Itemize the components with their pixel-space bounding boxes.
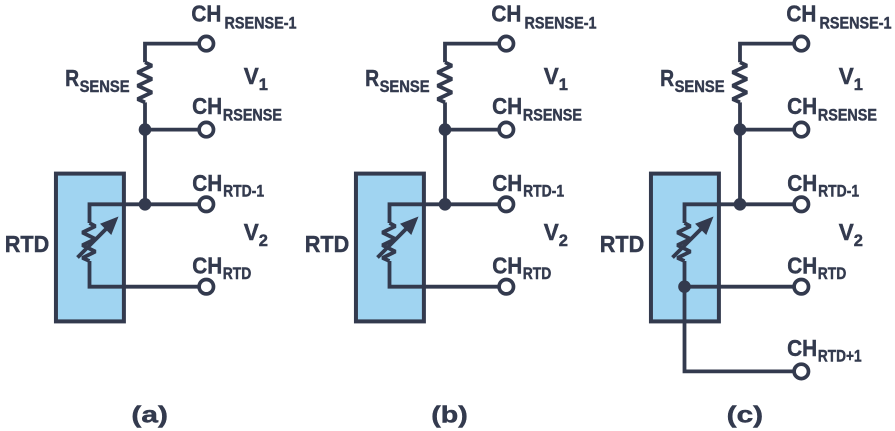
svg-text:(b): (b) (431, 401, 468, 427)
svg-text:(c): (c) (727, 401, 764, 427)
svg-text:CH: CH (787, 335, 817, 361)
svg-text:(a): (a) (131, 401, 168, 427)
svg-text:RTD+1: RTD+1 (818, 348, 862, 366)
